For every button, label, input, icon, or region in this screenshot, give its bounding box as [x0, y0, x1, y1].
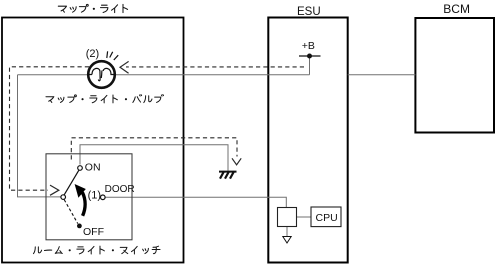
- label map light bulb (katakana): [46, 94, 164, 102]
- svg-text:(2): (2): [86, 48, 99, 60]
- svg-text:OFF: OFF: [83, 226, 104, 238]
- wire: DOOR contact to ESU input: [105, 197, 286, 207]
- room light switch box: [46, 154, 132, 240]
- switch blade dashed to OFF: [64, 200, 78, 224]
- switch blade common to ON: [64, 170, 79, 195]
- wire: +B vertical: [309, 56, 311, 75]
- svg-text:(1): (1): [88, 189, 101, 201]
- label map light (katakana): [58, 4, 127, 12]
- contact OFF (filled): [77, 224, 82, 229]
- label room light switch (katakana): [33, 246, 160, 254]
- lamp bulb circle: [88, 61, 115, 88]
- lamp light rays: [107, 51, 118, 60]
- contact DOOR: [101, 195, 106, 200]
- wire: switch ON contact to chassis ground: [80, 145, 228, 171]
- signal ground triangle: [283, 237, 291, 244]
- chassis ground symbol: [219, 171, 237, 173]
- svg-text:ESU: ESU: [297, 6, 321, 18]
- +B terminal bar: [299, 55, 321, 57]
- svg-text:ON: ON: [85, 162, 101, 174]
- wire: lamp feed horizontal to +B: [18, 74, 310, 76]
- contact ON: [78, 166, 83, 171]
- svg-text:+B: +B: [302, 40, 315, 52]
- svg-text:CPU: CPU: [316, 212, 338, 224]
- svg-text:DOOR: DOOR: [105, 184, 135, 195]
- ESU input block: [278, 208, 297, 227]
- svg-text:BCM: BCM: [443, 2, 470, 16]
- dashed current path: lamp to switch common with right arrow: [10, 67, 90, 190]
- +B junction dot: [307, 54, 312, 59]
- wire: lamp feed left vertical down to switch common: [18, 75, 61, 197]
- switch throw arrow (bold curved): [82, 192, 85, 215]
- wire: input block to CPU: [297, 216, 312, 218]
- dashed current path: +B to lamp with left arrow: [126, 66, 304, 68]
- wire: ESU to BCM: [348, 74, 416, 76]
- lamp filament: [88, 68, 114, 80]
- contact common: [61, 195, 66, 200]
- dashed current path: switch ON to chassis ground with down arrow: [71, 138, 237, 160]
- map light unit box: [2, 18, 184, 263]
- ESU box: [268, 18, 347, 263]
- BCM box: [415, 18, 494, 133]
- wire: input block to signal ground: [286, 227, 288, 237]
- CPU box: [311, 207, 341, 227]
